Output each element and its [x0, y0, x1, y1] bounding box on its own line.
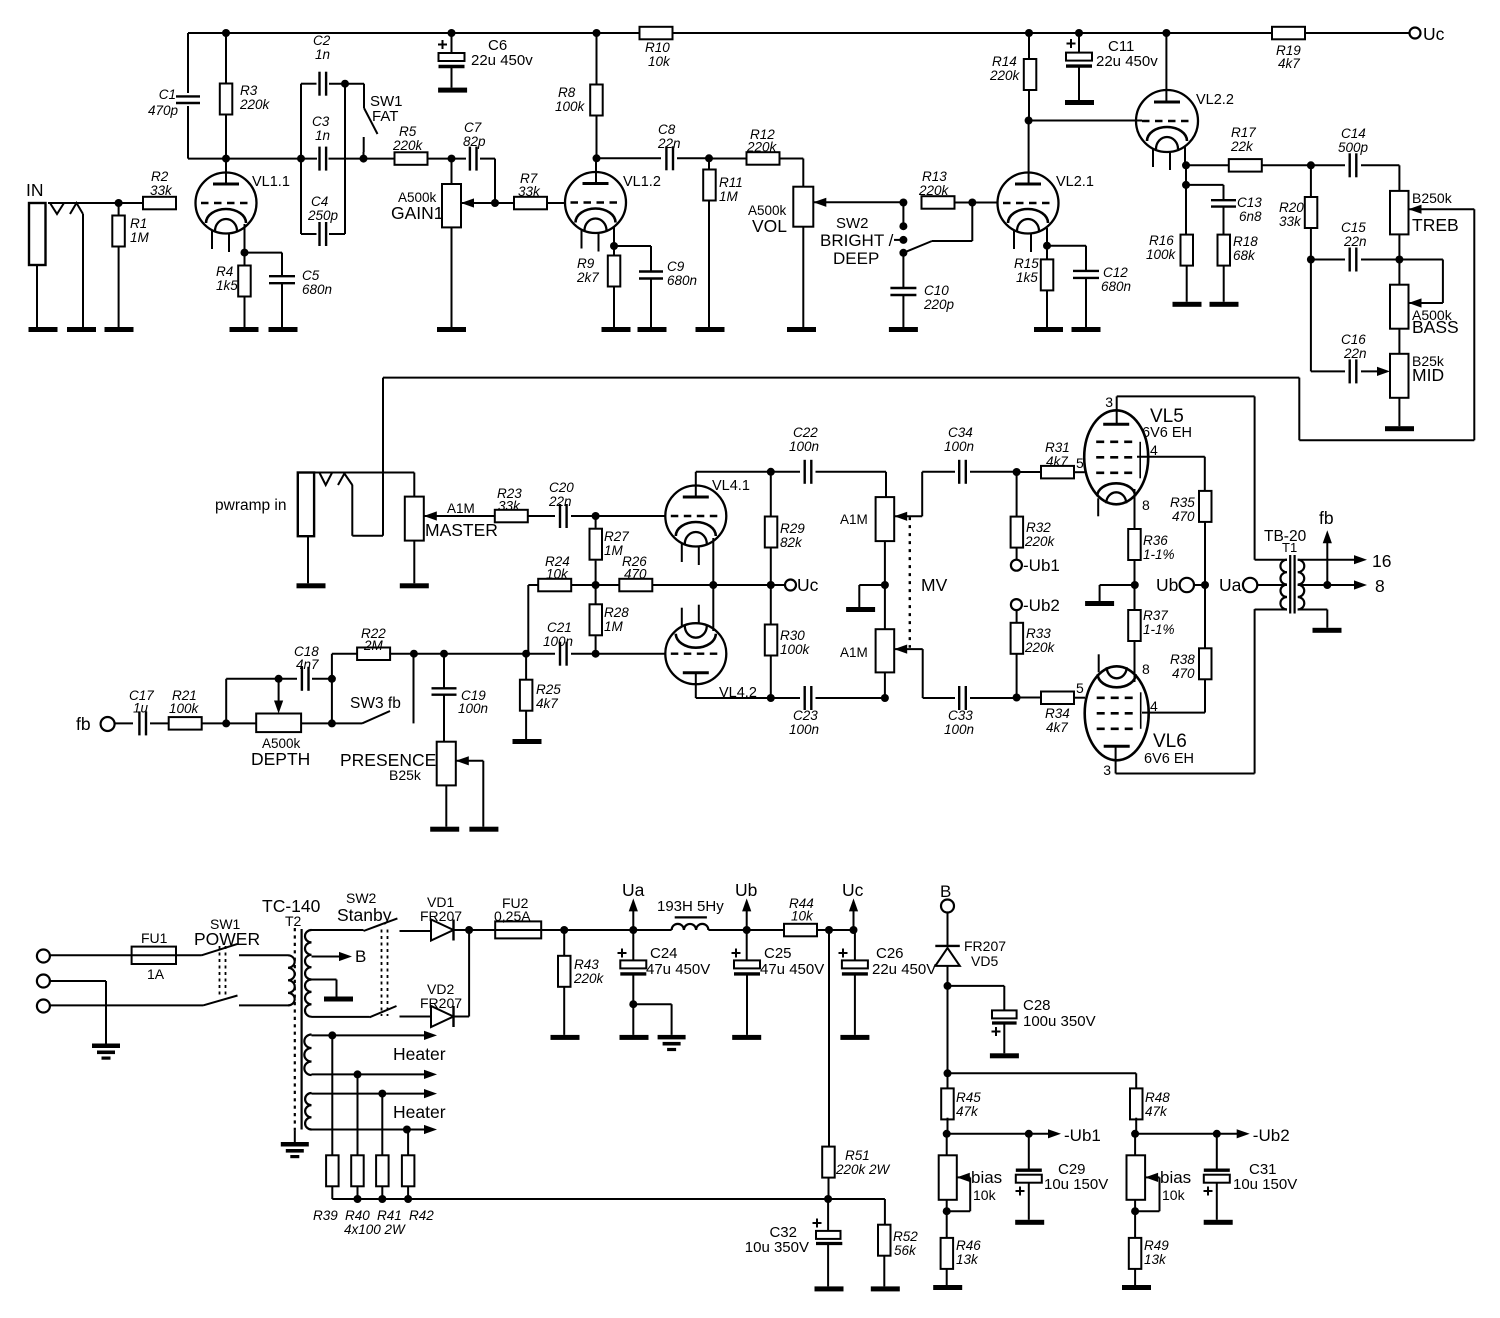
svg-text:100n: 100n: [789, 722, 819, 737]
svg-text:22n: 22n: [548, 494, 572, 509]
transformer T2 heater1: [304, 1035, 311, 1076]
wire mains earth: [50, 981, 106, 1044]
label C12: [1101, 265, 1131, 294]
resistor R9: [608, 246, 621, 327]
wire to R48: [948, 1073, 1137, 1090]
svg-text:22n: 22n: [1343, 346, 1367, 361]
resistor R8: [590, 33, 603, 158]
terminal mains N: [37, 1000, 50, 1013]
wire tone output bus: [352, 209, 1474, 536]
svg-text:R28: R28: [604, 605, 629, 620]
label VL4.1: [712, 478, 750, 494]
wire VL2.1 cathode: [1046, 228, 1048, 246]
label MASTER: [425, 501, 498, 540]
label R13: [918, 169, 950, 198]
label R32: [1024, 520, 1056, 549]
svg-text:Ua: Ua: [622, 880, 645, 900]
svg-text:47k: 47k: [956, 1104, 979, 1119]
svg-text:R13: R13: [922, 169, 947, 184]
transformer TB-20 secondary: [1298, 560, 1305, 610]
node VD join: [465, 926, 473, 934]
node MV mid: [881, 541, 889, 629]
label C26: [872, 945, 936, 978]
ground C29: [1015, 1220, 1044, 1225]
svg-text:VL2.2: VL2.2: [1196, 92, 1234, 108]
capacitor C17: [139, 711, 168, 735]
label C34: [944, 425, 974, 454]
capacitor C26: [839, 930, 868, 1035]
svg-text:R41: R41: [377, 1208, 402, 1223]
resistor R42: [402, 1130, 415, 1204]
node C6 tap: [448, 29, 456, 37]
label C11: [1096, 38, 1158, 70]
label R30: [780, 628, 811, 657]
svg-text:220k: 220k: [989, 68, 1021, 83]
svg-text:6V6 EH: 6V6 EH: [1144, 751, 1194, 767]
svg-text:R3: R3: [240, 83, 258, 98]
label VL4.2: [719, 685, 757, 701]
svg-text:470: 470: [1172, 509, 1195, 524]
svg-text:R33: R33: [1026, 626, 1051, 641]
wire cathode to R29 node: [713, 584, 771, 586]
switch SW2 link: [382, 930, 388, 1017]
ground T2 core: [281, 1131, 309, 1159]
wire sec 16: [1298, 551, 1392, 571]
svg-text:C28: C28: [1023, 997, 1051, 1014]
wire mains top: [50, 954, 132, 956]
svg-text:33k: 33k: [518, 184, 541, 199]
svg-text:R10: R10: [645, 40, 670, 55]
label SW2: [820, 215, 894, 268]
pentode VL5: [1084, 396, 1148, 516]
svg-text:R34: R34: [1045, 706, 1070, 721]
terminal mains L: [37, 950, 50, 963]
ground R49: [1122, 1285, 1151, 1290]
ground MASTER: [400, 583, 429, 588]
wire -Ub2 arrow: [1135, 1126, 1290, 1145]
label R14: [989, 54, 1021, 83]
label R19: [1276, 43, 1301, 71]
ground MV: [846, 585, 885, 612]
capacitor C15: [1311, 248, 1400, 272]
wire VL6 screen: [1142, 698, 1205, 714]
label R36: [1143, 533, 1175, 562]
svg-text:R14: R14: [992, 54, 1017, 69]
resistor R13: [922, 196, 999, 209]
svg-text:C8: C8: [658, 122, 676, 137]
wire arrow Ub: [735, 880, 757, 930]
ground C10: [889, 327, 918, 332]
capacitor C28: [948, 986, 1017, 1053]
ground R46: [933, 1285, 962, 1290]
svg-text:220p: 220p: [923, 297, 955, 312]
svg-text:220k: 220k: [1024, 640, 1056, 655]
label SW1 FAT: [370, 93, 403, 125]
svg-text:Uc: Uc: [842, 880, 864, 900]
svg-text:C5: C5: [302, 268, 320, 283]
svg-text:R45: R45: [956, 1090, 981, 1105]
svg-text:100k: 100k: [780, 642, 811, 657]
svg-text:C16: C16: [1341, 332, 1366, 347]
node R16 top: [1182, 165, 1190, 189]
ground R16: [1173, 302, 1202, 307]
ground C25: [732, 1035, 761, 1040]
svg-text:3: 3: [1105, 394, 1113, 410]
ground R15: [1034, 327, 1063, 332]
svg-text:C24: C24: [650, 945, 678, 962]
svg-text:R36: R36: [1143, 533, 1168, 548]
svg-text:100n: 100n: [543, 634, 573, 649]
node R5 right: [448, 155, 456, 163]
ground pwramp jack: [297, 583, 326, 588]
label C3: [312, 114, 330, 143]
svg-text:47u 450V: 47u 450V: [646, 961, 710, 978]
node DEPTH left: [202, 719, 257, 727]
svg-text:VL4.1: VL4.1: [712, 478, 750, 494]
svg-text:680n: 680n: [667, 273, 697, 288]
svg-text:FR207: FR207: [420, 908, 462, 924]
capacitor C1: [176, 33, 200, 159]
wire DEPTH top loop: [226, 679, 297, 724]
svg-text:-Ub1: -Ub1: [1023, 556, 1060, 575]
node Ub: [743, 926, 751, 934]
resistor R25: [520, 654, 533, 739]
svg-text:T2: T2: [285, 913, 302, 929]
label BASS: [1412, 307, 1459, 337]
switch SW2 BRIGHT/DEEP: [894, 203, 972, 257]
label R25: [536, 682, 561, 711]
label VL2.1: [1056, 174, 1094, 190]
resistor R27: [590, 516, 603, 585]
svg-text:R25: R25: [536, 682, 561, 697]
label A1M upper: [840, 512, 868, 527]
node Uc psu: [850, 926, 858, 934]
potentiometer bias2: [1127, 1134, 1160, 1238]
svg-text:R11: R11: [719, 175, 743, 190]
label C13: [1237, 195, 1262, 224]
resistor R40: [351, 1074, 364, 1203]
node cathode join: [709, 581, 717, 589]
transformer TB-20 core: [1290, 555, 1294, 614]
svg-text:SW3 fb: SW3 fb: [350, 695, 401, 712]
node C23 left: [767, 694, 775, 702]
label R21: [169, 688, 200, 716]
node -Ub1 out: [943, 1130, 951, 1138]
svg-text:680n: 680n: [1101, 279, 1131, 294]
label C25: [760, 945, 824, 978]
resistor R31: [1017, 466, 1085, 479]
resistor R10: [640, 27, 673, 40]
node C7 wiper join: [491, 199, 499, 207]
label C9: [667, 259, 697, 288]
label C16: [1341, 332, 1367, 361]
resistor R34: [1017, 692, 1085, 705]
node cathode VL2.1: [1043, 242, 1051, 250]
terminal mains E: [37, 975, 50, 988]
svg-text:R37: R37: [1143, 608, 1168, 623]
resistor R26: [596, 579, 714, 592]
node SW3 left: [328, 719, 336, 727]
capacitor C14: [1311, 153, 1400, 191]
svg-text:1k5: 1k5: [216, 278, 238, 293]
svg-text:C21: C21: [547, 620, 572, 635]
svg-text:4x100 2W: 4x100 2W: [344, 1222, 406, 1237]
label R5: [392, 124, 424, 153]
svg-text:IN: IN: [26, 180, 44, 200]
svg-text:10u 150V: 10u 150V: [1233, 1176, 1297, 1193]
label R4: [216, 264, 238, 293]
ground R52: [871, 1286, 900, 1291]
wire IN tip prong: [48, 203, 143, 327]
resistor R52: [878, 1225, 891, 1287]
svg-text:R5: R5: [399, 124, 417, 139]
label C18: [294, 644, 319, 672]
resistor R29: [765, 472, 778, 585]
node C2 right: [341, 80, 349, 88]
svg-text:220k: 220k: [573, 971, 605, 986]
resistor R18: [1218, 235, 1231, 302]
triode VL1.1: [196, 159, 257, 252]
switch SW2 Stanby pole1: [364, 918, 432, 931]
svg-text:C12: C12: [1103, 265, 1128, 280]
svg-text:R20: R20: [1279, 200, 1304, 215]
svg-text:8: 8: [1142, 497, 1150, 513]
wire R43-Ua: [564, 929, 633, 931]
capacitor C5: [245, 253, 296, 327]
resistor R30: [765, 585, 778, 698]
switch SW1 POWER pole2: [203, 996, 288, 1006]
node R36 bottom: [1131, 581, 1139, 589]
svg-text:R2: R2: [151, 169, 169, 184]
svg-text:R52: R52: [893, 1229, 918, 1244]
svg-text:1-1%: 1-1%: [1143, 622, 1175, 637]
label PRESENCE: [340, 750, 436, 783]
node R43 top: [560, 926, 568, 934]
label R38: [1170, 652, 1195, 681]
svg-text:B: B: [940, 882, 951, 901]
wire R44-C26: [829, 929, 855, 931]
label C2: [313, 33, 331, 62]
node anode VL1.1 rail: [222, 29, 230, 37]
wire VL4.1 cathode: [712, 538, 714, 585]
label C29: [1044, 1161, 1108, 1193]
resistor R22: [332, 648, 414, 661]
transformer T2 heater2: [305, 1093, 311, 1130]
terminal Uc mid: [771, 575, 819, 595]
svg-text:47u 450V: 47u 450V: [760, 961, 824, 978]
svg-text:GAIN1: GAIN1: [391, 203, 444, 223]
svg-text:100n: 100n: [944, 439, 974, 454]
wire VL1.2 cathode: [613, 227, 615, 246]
svg-text:POWER: POWER: [194, 929, 260, 949]
svg-text:VL1.2: VL1.2: [623, 174, 661, 190]
svg-text:1M: 1M: [719, 189, 739, 204]
svg-text:R46: R46: [956, 1238, 981, 1253]
label R49: [1144, 1238, 1169, 1267]
svg-text:R39: R39: [313, 1208, 338, 1223]
capacitor C29: [1016, 1134, 1042, 1220]
inductor L1 choke: [633, 917, 746, 930]
node R28 bottom: [592, 650, 600, 658]
wire Ua tap: [1257, 584, 1287, 586]
capacitor C33: [959, 686, 1016, 710]
svg-text:6n8: 6n8: [1239, 209, 1262, 224]
wire plate VL4.2 line: [696, 697, 771, 699]
ground mains earth: [92, 1044, 120, 1060]
wire anode node VL1.1: [188, 158, 395, 160]
transformer T2 primary: [288, 955, 295, 1005]
svg-text:10k: 10k: [1162, 1187, 1186, 1203]
capacitor C22: [771, 460, 886, 497]
svg-text:R30: R30: [780, 628, 805, 643]
svg-text:R4: R4: [216, 264, 233, 279]
capacitor C34: [959, 460, 1016, 484]
resistor R48: [1130, 1088, 1143, 1133]
label R51: [835, 1148, 891, 1177]
label C21: [543, 620, 573, 649]
resistor R44: [747, 924, 829, 937]
svg-text:Stanby: Stanby: [337, 905, 392, 925]
svg-text:220k: 220k: [239, 97, 271, 112]
label R15: [1014, 256, 1039, 285]
label MID: [1412, 353, 1445, 385]
label C33: [944, 708, 974, 737]
switch SW2 Stanby pole2: [370, 1006, 432, 1017]
label R24: [545, 554, 570, 582]
resistor R35: [1199, 491, 1212, 585]
label C6: [471, 37, 533, 69]
svg-text:Uc: Uc: [797, 575, 819, 595]
label TREB: [1412, 190, 1459, 235]
svg-text:Ua: Ua: [1219, 575, 1242, 595]
capacitor C23: [771, 686, 885, 710]
svg-text:68k: 68k: [1233, 248, 1256, 263]
wire grid line left: [414, 653, 526, 655]
svg-text:R51: R51: [845, 1148, 870, 1163]
svg-text:220k 2W: 220k 2W: [835, 1162, 891, 1177]
svg-text:470: 470: [624, 567, 647, 582]
switch SW3 fb: [332, 654, 414, 724]
svg-text:T1: T1: [1282, 540, 1297, 555]
svg-text:4: 4: [1150, 442, 1158, 458]
ground GAIN1: [437, 327, 466, 332]
resistor R7: [495, 197, 565, 210]
svg-text:100k: 100k: [1146, 247, 1177, 262]
wire sec 8: [1298, 576, 1385, 596]
node -Ub2 out: [1131, 1130, 1139, 1138]
wire bias split: [947, 986, 949, 1073]
label C15: [1341, 220, 1367, 249]
svg-text:6V6 EH: 6V6 EH: [1142, 425, 1192, 441]
label R31: [1045, 440, 1084, 471]
wire MID bottom: [1398, 398, 1400, 426]
node cathode VL1.2: [610, 242, 618, 250]
wire VL5 screen: [1137, 457, 1205, 492]
svg-text:FAT: FAT: [372, 108, 398, 125]
ground MID: [1385, 426, 1414, 431]
svg-text:C26: C26: [876, 945, 904, 962]
ground TB-20 sec: [1313, 628, 1342, 633]
wire tap B: [312, 947, 367, 966]
ground R43: [551, 1035, 580, 1040]
fuse FU1: [132, 947, 176, 964]
capacitor C3: [320, 147, 327, 171]
label VOL: [748, 203, 787, 236]
resistor R24: [538, 579, 595, 592]
resistor R21: [169, 717, 202, 730]
svg-text:SW2: SW2: [346, 890, 377, 906]
svg-text:FU1: FU1: [141, 930, 168, 946]
resistor R14: [1024, 33, 1037, 121]
label C4: [307, 194, 339, 223]
svg-text:fb: fb: [76, 714, 91, 734]
svg-text:8: 8: [1142, 661, 1150, 677]
ground R25: [513, 739, 542, 744]
svg-text:56k: 56k: [894, 1243, 917, 1258]
resistor R33: [1011, 610, 1024, 697]
label R16: [1146, 233, 1177, 262]
label VD5: [964, 938, 1006, 969]
svg-text:TREB: TREB: [1412, 215, 1459, 235]
label R46: [956, 1238, 981, 1267]
resistor R45: [941, 1073, 954, 1134]
node C22 left: [767, 468, 775, 476]
label R22: [361, 626, 386, 653]
resistor R49: [1129, 1238, 1142, 1285]
ground C9: [638, 327, 667, 332]
svg-text:-Ub2: -Ub2: [1023, 596, 1060, 615]
terminal -Ub1: [1011, 556, 1060, 575]
label C22: [789, 425, 819, 454]
label R35: [1170, 495, 1195, 524]
resistor R41: [376, 1094, 389, 1203]
node R8 tap: [593, 29, 601, 37]
label FU2: [494, 895, 531, 924]
label R28: [604, 605, 629, 634]
node R33 bottom: [1013, 694, 1021, 702]
potentiometer bias1: [939, 1134, 971, 1238]
capacitor C2: [301, 72, 364, 159]
label VD1: [420, 894, 462, 924]
svg-text:-Ub2: -Ub2: [1253, 1126, 1290, 1145]
svg-text:R18: R18: [1233, 234, 1258, 249]
svg-text:2k7: 2k7: [576, 270, 599, 285]
label VL6: [1103, 661, 1194, 778]
capacitor C31: [1204, 1134, 1230, 1220]
resistor R46: [941, 1238, 954, 1285]
svg-text:1-1%: 1-1%: [1143, 547, 1175, 562]
wire sec bottom: [1298, 610, 1328, 628]
node C19 top: [440, 650, 448, 658]
wire VL2.2 cathode: [1184, 146, 1186, 165]
label Heater2: [393, 1102, 446, 1122]
ground PRESENCE: [430, 827, 459, 832]
resistor R2: [143, 197, 176, 210]
label C32: [745, 1224, 809, 1256]
wire BASS wiper: [1399, 260, 1443, 308]
svg-text:470: 470: [1172, 666, 1195, 681]
svg-text:16: 16: [1372, 551, 1391, 571]
svg-text:82k: 82k: [780, 535, 803, 550]
svg-text:MASTER: MASTER: [425, 520, 498, 540]
node C24 bottom: [629, 1000, 637, 1008]
svg-text:22n: 22n: [657, 136, 681, 151]
resistor R16: [1181, 185, 1194, 302]
ground C11: [1065, 100, 1094, 105]
svg-text:4k7: 4k7: [1278, 56, 1300, 71]
svg-text:MID: MID: [1412, 365, 1444, 385]
svg-text:VD5: VD5: [971, 953, 998, 969]
